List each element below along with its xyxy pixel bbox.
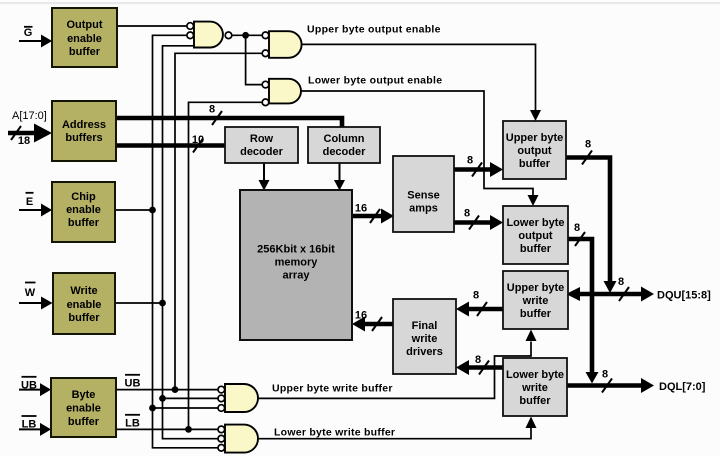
wire write enable buffer output bbox=[115, 302, 163, 304]
svg-text:decoder: decoder bbox=[240, 146, 284, 158]
svg-text:Column: Column bbox=[324, 133, 365, 145]
svg-text:drivers: drivers bbox=[406, 346, 443, 358]
node LB output label bbox=[125, 415, 140, 430]
wire LB input stub bbox=[19, 423, 51, 436]
bus lower byte output buffer to DQL bbox=[568, 232, 599, 384]
wire UB input stub bbox=[19, 383, 51, 396]
bus DQL bbox=[567, 378, 654, 393]
node W label bbox=[25, 283, 36, 300]
svg-text:decoder: decoder bbox=[323, 146, 367, 158]
svg-text:Lower byte write buffer: Lower byte write buffer bbox=[274, 427, 395, 439]
junction LB write line bbox=[185, 426, 192, 433]
upper byte write buffer box bbox=[503, 271, 568, 329]
svg-text:LB: LB bbox=[22, 419, 37, 431]
wire E input stub bbox=[19, 204, 52, 217]
wire G to NAND bbox=[117, 25, 187, 27]
wire column decoder to memory bbox=[334, 164, 345, 191]
svg-text:UB: UB bbox=[21, 379, 37, 391]
svg-text:buffer: buffer bbox=[519, 395, 551, 407]
svg-text:enable: enable bbox=[66, 204, 101, 216]
svg-text:Lower byte: Lower byte bbox=[506, 369, 564, 381]
svg-text:Final: Final bbox=[412, 320, 438, 332]
wire chip enable buffer output bbox=[115, 209, 153, 211]
node G label bbox=[24, 27, 33, 39]
wire lower byte output enable bbox=[301, 91, 539, 206]
svg-text:8: 8 bbox=[475, 354, 481, 366]
svg-text:Address: Address bbox=[62, 119, 106, 131]
svg-text:Byte: Byte bbox=[72, 389, 96, 401]
svg-text:write: write bbox=[522, 295, 549, 307]
junction NAND output bbox=[242, 32, 249, 39]
svg-text:Write: Write bbox=[70, 285, 97, 297]
svg-text:8: 8 bbox=[602, 369, 608, 381]
svg-text:Row: Row bbox=[250, 133, 274, 145]
wire lower byte write gate output bbox=[258, 417, 537, 439]
svg-text:enable: enable bbox=[67, 299, 102, 311]
svg-text:buffer: buffer bbox=[520, 243, 552, 255]
svg-text:Upper byte output enable: Upper byte output enable bbox=[307, 24, 441, 36]
junction chip enable bbox=[149, 207, 156, 214]
svg-text:write: write bbox=[521, 382, 548, 394]
bus 10 address to row decoder bbox=[116, 139, 225, 153]
decoder column bbox=[308, 127, 380, 163]
upper byte output buffer bbox=[503, 121, 566, 179]
wire UB line to write gate bbox=[116, 389, 218, 391]
svg-text:256Kbit x 16bit: 256Kbit x 16bit bbox=[257, 244, 335, 256]
wire net UB vertical bbox=[175, 53, 262, 389]
svg-text:A[17:0]: A[17:0] bbox=[12, 110, 47, 122]
svg-text:Lower byte: Lower byte bbox=[506, 217, 564, 229]
svg-text:Output: Output bbox=[66, 19, 102, 31]
svg-text:Sense: Sense bbox=[407, 190, 439, 202]
sense amps bbox=[393, 156, 454, 232]
gate upper byte output enable bbox=[262, 31, 301, 58]
bus A[17:0] input bbox=[8, 124, 52, 143]
junction E write line bbox=[149, 405, 156, 412]
buffer byte enable bbox=[51, 378, 116, 437]
buffer write enable bbox=[53, 273, 115, 334]
wire upper byte write gate output bbox=[258, 330, 537, 399]
bus 16 final write drivers to memory bbox=[352, 317, 393, 332]
svg-text:buffer: buffer bbox=[519, 158, 551, 170]
decoder row bbox=[225, 127, 298, 163]
svg-text:8: 8 bbox=[574, 222, 580, 234]
gate NAND G E W bbox=[187, 22, 232, 48]
wire G input stub bbox=[19, 35, 52, 48]
svg-text:write: write bbox=[411, 333, 438, 345]
wire W input stub bbox=[19, 297, 53, 310]
svg-text:array: array bbox=[283, 270, 311, 282]
svg-text:DQL[7:0]: DQL[7:0] bbox=[659, 381, 706, 393]
svg-text:8: 8 bbox=[464, 208, 470, 220]
svg-text:enable: enable bbox=[67, 33, 102, 45]
svg-text:8: 8 bbox=[209, 104, 215, 116]
junction write enable bbox=[159, 300, 166, 307]
gate lower byte write bbox=[218, 425, 258, 453]
buffer address bbox=[52, 101, 116, 161]
svg-text:buffers: buffers bbox=[65, 132, 102, 144]
svg-text:output: output bbox=[517, 145, 552, 157]
wire NAND output net bbox=[232, 35, 262, 84]
svg-text:E: E bbox=[26, 196, 33, 208]
svg-text:buffer: buffer bbox=[520, 308, 552, 320]
svg-text:amps: amps bbox=[409, 203, 438, 215]
svg-text:LB: LB bbox=[125, 417, 140, 429]
junction W write line bbox=[159, 395, 166, 402]
gate lower byte output enable bbox=[262, 79, 301, 106]
svg-text:memory: memory bbox=[275, 257, 319, 269]
svg-text:buffer: buffer bbox=[68, 312, 100, 324]
wire E line to upper write gate bbox=[153, 407, 219, 409]
top edge artifact band bbox=[0, 2, 720, 4]
svg-text:8: 8 bbox=[467, 155, 473, 167]
svg-text:8: 8 bbox=[618, 276, 624, 288]
node UB input label bbox=[21, 377, 37, 392]
bus 8 upper write buffer to final write drivers bbox=[456, 302, 503, 317]
svg-text:16: 16 bbox=[355, 310, 367, 322]
svg-text:output: output bbox=[518, 230, 553, 242]
buffer chip enable bbox=[52, 182, 115, 242]
lower byte write buffer box bbox=[503, 358, 567, 416]
wire row decoder to memory bbox=[259, 164, 270, 191]
svg-text:buffer: buffer bbox=[68, 217, 100, 229]
svg-text:enable: enable bbox=[66, 403, 101, 415]
node UB output label bbox=[125, 375, 141, 390]
wire W line to upper write gate bbox=[163, 397, 219, 399]
wire upper byte output enable bbox=[302, 44, 542, 121]
wire net W vertical bbox=[163, 46, 219, 439]
bus 8 address to column decoder bbox=[116, 111, 342, 127]
svg-text:Upper byte: Upper byte bbox=[507, 282, 564, 294]
node E label bbox=[26, 193, 34, 208]
bus 8 sense amps to upper byte output buffer bbox=[454, 162, 503, 177]
svg-text:buffer: buffer bbox=[69, 46, 101, 58]
memory array bbox=[240, 190, 352, 340]
svg-text:buffer: buffer bbox=[68, 416, 100, 428]
svg-text:Upper byte write buffer: Upper byte write buffer bbox=[272, 383, 393, 395]
svg-text:16: 16 bbox=[355, 203, 367, 215]
bus 8 lower write buffer to final write drivers bbox=[456, 360, 503, 375]
wire net LB vertical bbox=[189, 102, 263, 429]
svg-text:8: 8 bbox=[585, 139, 591, 151]
junction UB write line bbox=[172, 386, 179, 393]
svg-text:Lower byte output enable: Lower byte output enable bbox=[308, 75, 442, 87]
svg-text:Upper byte: Upper byte bbox=[506, 132, 563, 144]
svg-text:18: 18 bbox=[18, 135, 30, 147]
svg-text:Chip: Chip bbox=[71, 191, 96, 203]
node LB input label bbox=[22, 416, 37, 431]
svg-text:W: W bbox=[25, 287, 36, 299]
bus upper byte output buffer to DQU bbox=[566, 151, 617, 294]
bus 8 sense amps to lower byte output buffer bbox=[454, 215, 503, 230]
svg-text:8: 8 bbox=[473, 290, 479, 302]
lower byte output buffer bbox=[503, 206, 568, 264]
svg-text:G: G bbox=[24, 27, 33, 39]
bus 16 memory to sense amps bbox=[352, 209, 394, 224]
wire net E vertical bbox=[153, 35, 219, 448]
svg-text:UB: UB bbox=[125, 377, 141, 389]
bus DQU bbox=[566, 287, 654, 302]
gate upper byte write bbox=[218, 384, 258, 412]
svg-text:10: 10 bbox=[192, 134, 204, 146]
wire LB line to write gate bbox=[116, 428, 218, 430]
buffer output enable bbox=[52, 8, 117, 67]
final write drivers bbox=[393, 299, 456, 374]
svg-text:DQU[15:8]: DQU[15:8] bbox=[657, 290, 711, 302]
